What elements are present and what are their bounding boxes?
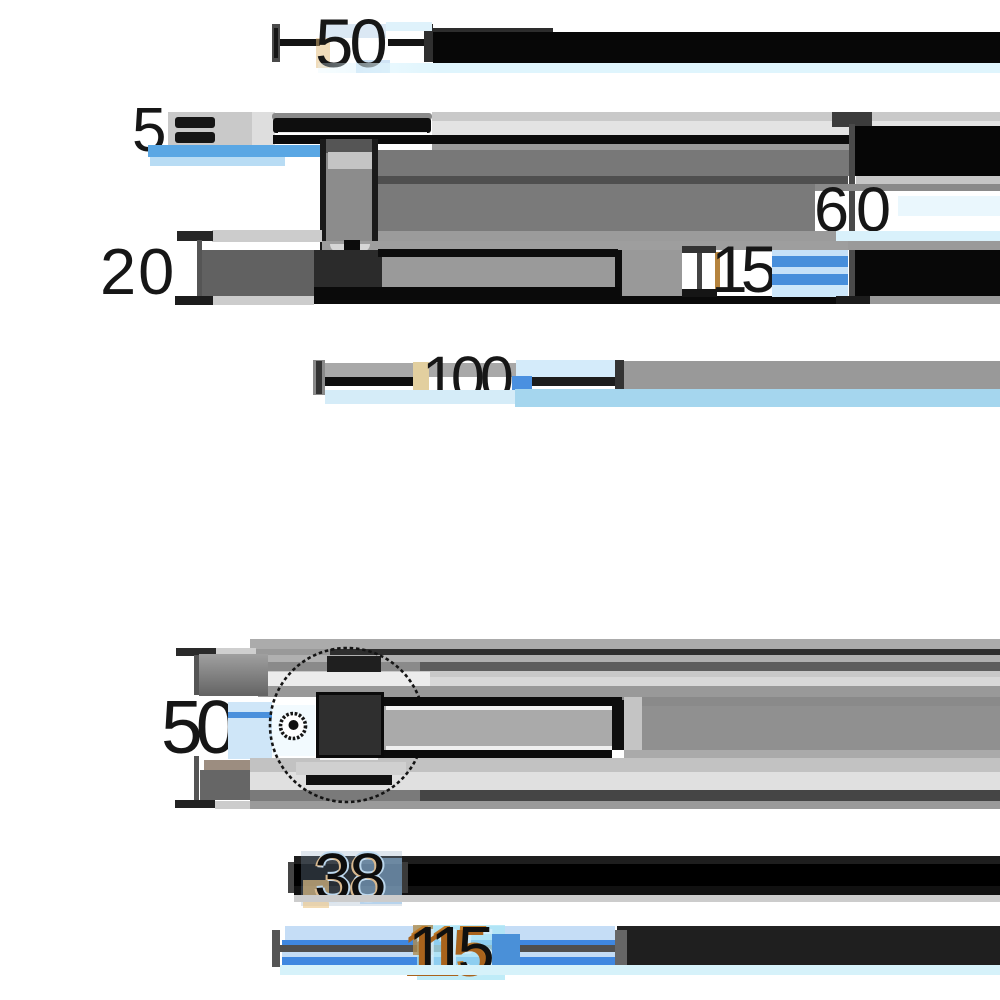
front bar end cap <box>612 700 624 750</box>
dark block bottom inside circle <box>306 775 392 785</box>
dimension 50 top: right line segment <box>388 39 425 46</box>
smear right of bar end <box>622 250 682 296</box>
pale cyan blob above band <box>386 22 432 31</box>
dimension 100: right tick <box>615 360 624 394</box>
dimension 5: upper tick bar <box>175 117 215 128</box>
dimension 115: label <box>408 917 485 984</box>
dimension 38: right tick <box>402 862 408 893</box>
dimension 20: label <box>100 239 176 304</box>
dimension 50 top: left tick <box>272 24 280 62</box>
dimension 38: left tick <box>288 862 294 893</box>
grip bar bottom edge smear black <box>314 287 620 297</box>
dimension 20: top tick <box>212 230 322 242</box>
dimension 115: blue stripe <box>282 940 615 948</box>
smear gray block <box>200 770 250 800</box>
smear tan band <box>204 760 272 770</box>
smear bands right of neck <box>378 150 849 176</box>
smear blue stripes left of circle <box>228 702 272 759</box>
smear black rect right of 115 <box>627 930 1000 965</box>
dimension 50 left: bottom tick <box>175 800 215 808</box>
dimension 38: black smear band <box>294 856 1000 864</box>
dimension 20: bottom tick <box>175 296 213 305</box>
dimension 20: stem <box>197 240 202 297</box>
smear blue band under 100 <box>325 390 515 404</box>
dimension 5: gray halo pad <box>168 112 252 145</box>
light halo window behind 38 <box>301 851 402 906</box>
smear black rect right of 60 top tick <box>855 126 1000 176</box>
neck (side view) left edge <box>320 139 326 250</box>
smear right of front bar <box>624 706 1000 750</box>
smear band dark above black <box>433 28 553 32</box>
dark block top of square smear <box>327 656 381 672</box>
dimension 50 top: right tick <box>424 24 433 62</box>
dimension 50 left: top tick <box>176 648 216 656</box>
front bar bottom edge <box>384 750 612 758</box>
dimension 50 top: left line segment <box>280 39 320 46</box>
white notch under end cap <box>612 750 625 758</box>
dimension 60: top tick bar <box>832 112 872 127</box>
smear light band below 38 <box>294 895 1000 902</box>
rose plate (side view, 50x5 bar) <box>272 113 432 120</box>
dimension 15: top tick <box>682 246 716 253</box>
dimension 15: bottom tick <box>682 289 717 297</box>
dimension 60: stem <box>849 124 855 304</box>
smear gray above 100 line <box>325 363 624 377</box>
dimension 60: label <box>814 179 898 242</box>
front bar top edge black <box>316 697 622 706</box>
smear cyan band under 60 <box>836 231 1000 241</box>
dimension 115: right tick <box>615 930 627 965</box>
light column right of end cap <box>624 697 642 758</box>
grip bar (side view) end cap <box>615 250 623 297</box>
dimension 115: blue stripe <box>282 957 615 966</box>
smear cyan band bottom <box>280 965 1000 975</box>
handle square base (front view) <box>316 692 384 758</box>
dimension 5: lower tick bar <box>175 132 215 143</box>
dimension 15: stem <box>697 253 702 290</box>
dimension 100: line right blue stub <box>512 376 532 390</box>
dimension 50 left: label <box>161 690 230 765</box>
dimension 100: line right <box>532 377 615 386</box>
dimension 60: bottom tick <box>836 296 870 304</box>
dimension 115: left tick <box>272 930 280 967</box>
dimension 115: blue halo band top <box>285 926 615 940</box>
smear bands below bar <box>250 758 1000 772</box>
dimension 50 top: label 50 <box>315 9 384 78</box>
screw hole circle <box>276 709 312 745</box>
smear black full band below bar <box>314 296 836 304</box>
cyan halo above right of label <box>516 360 616 377</box>
dimension 115: line <box>280 945 617 952</box>
neck interior <box>326 139 372 250</box>
smear gray right edge above black rect <box>848 241 1000 250</box>
smear black rect right of 60 bottom <box>855 250 1000 296</box>
dimension 100: line left <box>325 377 425 386</box>
grip bar (side view) top edge <box>378 249 618 257</box>
smear blue stripes right of 15 <box>772 250 848 256</box>
light band above grip bar <box>322 241 848 250</box>
white line under square <box>320 756 378 760</box>
neck right edge <box>372 139 378 250</box>
dimension 50 left: bottom stem <box>194 756 199 800</box>
dimension 50 left: top stem <box>194 655 199 695</box>
dimension 20: gray smear block <box>202 250 314 297</box>
neck cove black blob <box>344 240 360 250</box>
smear bands right of rose plate <box>432 112 1000 121</box>
smear band black right of 50 dim <box>433 32 1000 63</box>
dimension 100: left tick <box>313 360 325 395</box>
dimension 115: blue stripe light <box>282 952 615 957</box>
dimension 5: label <box>132 100 166 162</box>
cyan tint inside circle left of square <box>272 705 315 756</box>
smear band blue left of neck <box>148 145 320 157</box>
front bar interior <box>384 706 612 750</box>
rose plate highlight slit <box>278 132 427 136</box>
dimension 15: label <box>711 236 770 302</box>
dimension 38: label <box>314 844 385 911</box>
rose circle (dashed) <box>259 637 439 817</box>
grip neck block (side view) <box>314 250 384 303</box>
dimension 100: label <box>422 348 509 409</box>
smear band cyan below <box>318 63 1000 73</box>
grip bar (side view) interior <box>382 257 615 287</box>
light cyan window behind 115 <box>417 925 505 980</box>
blue patch right of 115 label <box>492 934 520 968</box>
blue tint under 60 <box>778 233 848 242</box>
cream patch left of 100 <box>413 362 429 402</box>
neck cove notch <box>330 244 370 252</box>
orange fringe left of 15 <box>715 252 720 290</box>
white inner strips of front bar <box>386 706 612 710</box>
smear band light blue below <box>150 157 285 166</box>
smear black line from plate bottom edge <box>273 135 849 144</box>
smear gray block right of stem <box>199 654 268 696</box>
artifact patches around 50 label <box>320 24 386 38</box>
smear band stack lower view <box>250 639 1000 649</box>
